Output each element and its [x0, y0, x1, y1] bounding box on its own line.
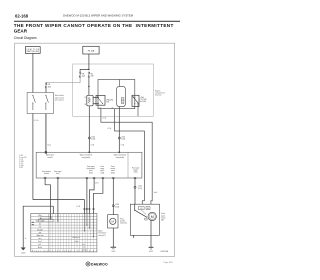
label S4 C96 — [106, 99, 113, 104]
svg-text:relay (G7): relay (G7) — [98, 235, 106, 237]
label C204 — [121, 136, 125, 140]
svg-text:(C04): (C04) — [134, 171, 138, 173]
wire cluster d into grid — [93, 214, 95, 237]
svg-text:(C96): (C96) — [89, 172, 93, 174]
coil winding box — [121, 98, 124, 104]
svg-text:Ea-4: Ea-4 — [154, 192, 157, 194]
svg-text:(lock): (lock) — [89, 170, 93, 172]
relay coil box — [87, 95, 93, 106]
pin oval e — [86, 177, 88, 179]
coil winding — [88, 97, 90, 103]
svg-text:Page 4/99: Page 4/99 — [164, 262, 174, 264]
front washer motor box — [108, 215, 118, 228]
label Ef2 30A — [48, 84, 52, 88]
wire cluster c into grid — [88, 214, 90, 229]
switch contact — [98, 97, 103, 103]
ignition switch box — [25, 47, 40, 54]
node junction — [88, 86, 89, 87]
legend text column — [19, 154, 26, 169]
svg-text:C204: C204 — [138, 186, 142, 188]
engine compartment fuse box (gray) — [73, 64, 154, 116]
label Ef8 10A — [82, 73, 86, 77]
svg-text:Wiper low: Wiper low — [37, 235, 45, 237]
label C204 — [91, 136, 95, 140]
motor limit switch box H/S — [146, 207, 150, 210]
caption wiper intermittent relay right — [114, 154, 127, 159]
wire into motor a — [134, 204, 136, 210]
wire Wb into grid — [57, 214, 59, 223]
wire Wa below switch — [45, 178, 50, 213]
svg-text:Ef2: Ef2 — [48, 84, 51, 86]
header rule — [14, 20, 180, 23]
svg-text:6JW500A: 6JW500A — [160, 250, 169, 253]
svg-text:F4 10A: F4 10A — [88, 49, 95, 52]
relay switch box right — [132, 95, 139, 106]
grid cell box a — [41, 217, 52, 219]
svg-text:0.5 B: 0.5 B — [121, 144, 125, 146]
svg-text:(Main wiper: (Main wiper — [46, 155, 55, 157]
svg-text:(C24): (C24) — [121, 139, 125, 141]
wire Wc below switch — [89, 178, 94, 214]
pin wiper int relay right — [119, 152, 121, 154]
connector C204 right — [118, 137, 120, 139]
node junction — [88, 69, 89, 70]
svg-text:(C96): (C96) — [111, 172, 115, 174]
svg-text:BL/Lo: BL/Lo — [38, 247, 42, 249]
svg-text:0.5 B: 0.5 B — [103, 118, 107, 120]
label engine compartment fuse box — [155, 90, 165, 96]
svg-text:G102: G102 — [111, 251, 115, 253]
node relay right b — [134, 103, 135, 104]
daewoo logo emblem — [86, 262, 90, 266]
svg-text:62-168: 62-168 — [15, 13, 29, 18]
column combination switch box — [36, 152, 142, 178]
label Ef2 15A — [91, 73, 95, 77]
svg-text:C204: C204 — [121, 136, 125, 138]
label C204 — [138, 186, 142, 190]
wire Ef2 down to relay coil — [88, 77, 90, 95]
svg-text:2 4 6 8: 2 4 6 8 — [82, 250, 87, 252]
svg-text:HS: HS — [147, 208, 149, 210]
caption front wiper high — [132, 166, 140, 173]
svg-text:Ef8: Ef8 — [82, 73, 85, 75]
svg-text:hi-T: hi-T — [39, 244, 42, 246]
svg-text:washer: washer — [120, 221, 126, 223]
svg-text:GEAR: GEAR — [14, 29, 28, 34]
motor switch contacts — [135, 210, 147, 217]
svg-text:Wiper: Wiper — [98, 231, 103, 233]
connector Ef2 30A — [45, 83, 47, 88]
connector oval pin b — [57, 177, 59, 179]
connector C204 motor — [134, 186, 136, 188]
ignition switch label — [27, 49, 40, 53]
svg-text:1. OF: 1. OF — [19, 159, 23, 161]
svg-text:C204: C204 — [91, 136, 95, 138]
caption wiper intermittent relay — [80, 154, 93, 159]
svg-text:W-lo b-2 a: W-lo b-2 a — [73, 237, 80, 239]
ground G102 — [21, 247, 26, 249]
svg-text:(C24): (C24) — [138, 188, 142, 190]
svg-text:(C23): (C23) — [115, 206, 119, 208]
svg-text:DAEWOO M-150 BL3 WIPER AND WAS: DAEWOO M-150 BL3 WIPER AND WASHING SYSTE… — [63, 14, 134, 18]
relay coil rounded — [117, 86, 126, 106]
label front wiper relay — [140, 96, 147, 103]
wire left down long — [32, 114, 34, 200]
svg-text:C203: C203 — [115, 204, 119, 206]
svg-text:5. INT: 5. INT — [19, 167, 23, 169]
motor M circle — [148, 212, 156, 220]
pin main wiper switch — [45, 151, 47, 153]
wire left elbow to relay grid — [33, 200, 85, 214]
caption front washer motor pin — [110, 165, 115, 174]
caption front washer switch — [42, 170, 51, 175]
wire relay top — [119, 80, 121, 87]
diagram frame — [15, 43, 175, 256]
svg-text:M: M — [151, 215, 154, 219]
divider — [127, 152, 129, 178]
svg-text:(low): (low) — [56, 173, 60, 175]
svg-text:87: 87 — [112, 107, 114, 109]
grid input arrow a — [31, 222, 33, 223]
wire cluster a into grid — [83, 214, 85, 231]
washer motor circle — [110, 218, 116, 224]
wire washer motor — [112, 178, 114, 215]
wire L1 relay to motor high — [101, 109, 152, 205]
svg-text:G102: G102 — [21, 252, 25, 254]
svg-text:0.5 B: 0.5 B — [77, 206, 81, 208]
wire Ef8 to bus — [46, 77, 80, 82]
front wiper motor box — [130, 204, 159, 235]
caption wiper intermittent relay module — [98, 231, 106, 237]
caption main wiper switch — [46, 155, 55, 159]
fuse Ef8 10A — [79, 72, 81, 78]
wire coil down to column switch — [88, 106, 90, 153]
connector oval pin a — [44, 177, 46, 179]
svg-text:fuse box: fuse box — [155, 94, 162, 96]
svg-text:vss: vss — [39, 227, 42, 229]
fuse F4 box — [83, 46, 99, 54]
pin oval c — [93, 177, 95, 179]
wire to main wiper switch — [45, 88, 47, 92]
svg-text:0.5 B: 0.5 B — [95, 182, 99, 184]
wire branch to Ef8 — [80, 70, 89, 72]
svg-text:(w/ washer): (w/ washer) — [55, 99, 64, 102]
wire F4 down — [88, 54, 90, 70]
svg-text:THE FRONT WIPER CANNOT OPERATE: THE FRONT WIPER CANNOT OPERATE ON THE IN… — [14, 23, 174, 28]
svg-text:Ea4 (36): Ea4 (36) — [140, 101, 147, 103]
wire switch stub — [137, 103, 139, 116]
svg-text:3. OF: 3. OF — [19, 163, 23, 165]
svg-text:0.5 B: 0.5 B — [91, 144, 95, 146]
svg-text:0.5 B: 0.5 B — [108, 128, 112, 130]
svg-text:INT: INT — [39, 232, 42, 234]
grid columns — [50, 214, 93, 252]
node — [98, 103, 99, 104]
wire cluster b into grid — [86, 214, 88, 226]
svg-text:2. S/W: 2. S/W — [19, 161, 24, 163]
pin oval d — [102, 177, 104, 179]
wire relay down to column switch — [118, 107, 120, 153]
svg-text:b-1: b-1 — [39, 224, 41, 226]
wire Wd below switch — [94, 178, 103, 214]
wire Wa into grid — [50, 214, 52, 220]
label front washer motor — [120, 218, 127, 225]
wire Wb below switch — [57, 178, 59, 213]
wire wiper switch down thick — [45, 114, 47, 153]
connector C203 — [112, 205, 114, 207]
node relay right a — [134, 97, 135, 98]
motor brush contact box — [145, 218, 147, 220]
svg-text:a-b c: a-b c — [75, 241, 79, 243]
switch contact — [133, 97, 138, 103]
svg-text:relay (dash): relay (dash) — [116, 157, 125, 159]
connector dots row — [84, 208, 95, 210]
svg-text:DAEWOO: DAEWOO — [91, 262, 108, 266]
wire washer to ground — [112, 228, 114, 247]
wire We below switch — [86, 178, 88, 214]
svg-text:Circuit Diagram: Circuit Diagram — [14, 36, 37, 40]
svg-text:c-d: c-d — [82, 244, 84, 246]
svg-text:(high): (high) — [134, 169, 138, 171]
grid input arrow b — [31, 224, 33, 225]
svg-text:W-lo: W-lo — [38, 215, 41, 217]
svg-text:lw-a: lw-a — [39, 238, 42, 240]
svg-text:4. S/W: 4. S/W — [19, 165, 24, 167]
motor limit switch box L/S — [138, 207, 144, 210]
svg-text:(C96): (C96) — [100, 172, 104, 174]
grid cell box b — [38, 220, 54, 222]
motor pin stub — [133, 235, 135, 238]
svg-text:(C24): (C24) — [91, 139, 95, 141]
wiper intermittent relay grid box — [31, 214, 97, 252]
wire coil to relay 2 — [93, 103, 98, 105]
svg-text:G103: G103 — [149, 251, 153, 253]
relay switch box S31 — [96, 95, 105, 105]
wire coil to relay — [93, 96, 98, 98]
svg-text:1a: 1a — [25, 238, 27, 240]
label front wiper motor — [161, 212, 166, 221]
svg-text:S31: S31 — [106, 102, 109, 104]
pin labels relay — [85, 97, 114, 109]
svg-text:Su-T: Su-T — [38, 241, 41, 243]
switch SW2 contact — [46, 96, 49, 110]
caption front wiper park — [100, 165, 104, 174]
ground G103 — [149, 246, 154, 248]
pin oval f — [112, 177, 114, 179]
svg-text:relay (dash): relay (dash) — [82, 157, 91, 159]
wire L2 relay to motor low — [115, 109, 145, 205]
label C203 — [115, 204, 119, 208]
svg-text:(M): (M) — [161, 220, 164, 222]
node — [98, 97, 99, 98]
wire motor to ground — [150, 221, 152, 248]
pin oval g — [134, 177, 136, 179]
main wiper switch box — [27, 93, 53, 114]
wire grid to ground elbow — [23, 206, 53, 247]
ground washer — [111, 246, 117, 248]
switch SW1 contact — [33, 96, 36, 110]
svg-text:n-o: n-o — [83, 247, 85, 249]
wiper relay box R1 — [98, 80, 135, 109]
wire to front wiper motor — [134, 178, 136, 204]
wire ignition to wiper switch — [32, 53, 34, 92]
pin wiper int relay left — [89, 152, 91, 154]
grid label divider — [47, 214, 49, 252]
svg-text:SWITCH (IG2): SWITCH (IG2) — [27, 51, 40, 53]
fuse Ef2 15A — [88, 72, 90, 78]
label windshield wiper switch — [55, 95, 64, 101]
grid row labels — [36, 215, 45, 249]
svg-text:Ef2: Ef2 — [91, 73, 94, 75]
svg-text:C207 4W: C207 4W — [140, 99, 147, 101]
grid rows — [31, 216, 97, 248]
svg-text:Ea-4: Ea-4 — [48, 145, 51, 147]
caption front wiper int — [87, 165, 96, 174]
connector C204 — [88, 137, 90, 139]
caption front wiper low — [54, 170, 62, 175]
